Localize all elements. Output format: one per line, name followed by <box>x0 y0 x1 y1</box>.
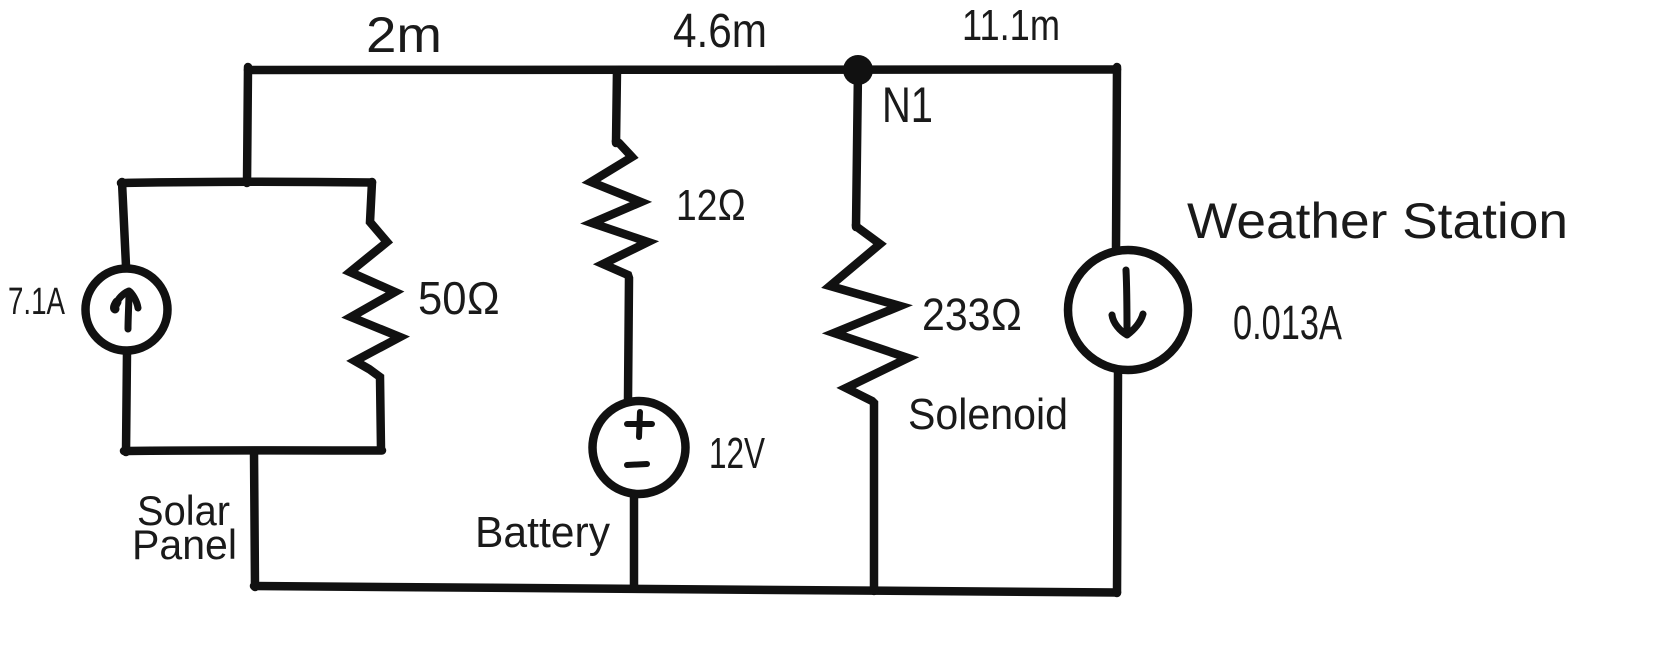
current source I2 down arrow <box>1112 270 1143 335</box>
wire: N1 branch vertical down to 233Ω <box>856 70 858 227</box>
svg-text:12Ω: 12Ω <box>676 181 746 230</box>
wire: battery bottom lead to bottom rail <box>630 496 639 588</box>
wire: solar panel stem down to bottom rail <box>254 452 255 587</box>
current source I2 0.013A circle (weather station) <box>1068 250 1188 370</box>
svg-text:Panel: Panel <box>132 521 237 568</box>
wire: solar panel bottom horizontal <box>124 446 382 455</box>
resistor R2 12Ω (battery branch) <box>591 141 648 399</box>
wire: solar panel left vertical into current source <box>122 182 126 266</box>
svg-text:2m: 2m <box>366 7 442 63</box>
wire: solar panel top horizontal <box>121 182 372 183</box>
svg-text:Weather Station: Weather Station <box>1187 193 1568 249</box>
wire: bottom rail <box>254 586 1117 593</box>
svg-text:233Ω: 233Ω <box>922 289 1022 340</box>
wire: left branch vertical (top rail down to solar panel top wire) <box>247 67 248 183</box>
svg-text:7.1A: 7.1A <box>8 281 65 323</box>
svg-text:0.013A: 0.013A <box>1233 297 1342 350</box>
wire: 12Ω branch vertical from top rail <box>616 70 617 143</box>
node N1 junction dot <box>843 55 873 85</box>
wire: weather station bottom lead to bottom rail <box>1117 373 1118 593</box>
svg-text:Solenoid: Solenoid <box>908 390 1068 439</box>
svg-text:N1: N1 <box>882 77 933 133</box>
svg-text:Battery: Battery <box>475 508 610 557</box>
wire: top rail from left branch to weather station branch <box>248 68 1117 70</box>
svg-text:4.6m: 4.6m <box>673 5 767 58</box>
current source I1 7.1A circle (solar panel) <box>86 269 168 351</box>
svg-text:11.1m: 11.1m <box>962 1 1060 50</box>
wire: weather station branch vertical (top rail down to source) <box>1116 67 1117 248</box>
resistor R3 233Ω (solenoid) <box>830 225 908 591</box>
battery V1 12V circle <box>593 401 686 494</box>
svg-text:12V: 12V <box>709 429 765 478</box>
resistor R1 50Ω (solar panel shunt) <box>350 182 400 449</box>
wire: current source bottom lead down to solar panel bottom wire <box>126 352 127 452</box>
battery minus sign <box>627 464 647 465</box>
current source I1 up arrow <box>115 291 138 329</box>
svg-text:50Ω: 50Ω <box>418 272 500 324</box>
battery plus sign <box>627 412 652 465</box>
